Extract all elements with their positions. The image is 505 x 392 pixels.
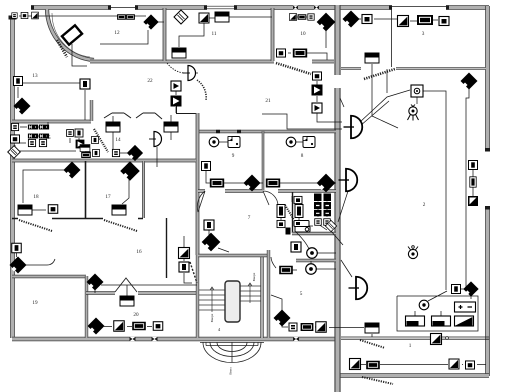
device B51 room7 <box>204 220 214 230</box>
wire room12 door leaf drop <box>72 44 87 66</box>
wall y190 rooms9-8 bottom <box>198 189 336 192</box>
device B46 room14 <box>106 122 120 132</box>
detector D1 diamond <box>143 14 158 29</box>
wire room15 net <box>15 122 91 152</box>
wall left outer <box>9 16 17 339</box>
detector D7 <box>463 281 478 296</box>
bell R1 room2 <box>419 300 429 310</box>
device B14 right column <box>468 196 478 206</box>
wall x85 room18-17 divider <box>85 161 87 218</box>
wall y68 right <box>341 67 486 70</box>
device A9 <box>308 14 314 20</box>
wire room18 <box>23 170 65 210</box>
wall y115 room14 top <box>104 113 162 119</box>
door leaf room10 bottom <box>276 63 311 74</box>
device B31 corridor east <box>179 262 189 272</box>
device B25 room20 <box>114 321 125 332</box>
wire room20 row <box>95 285 197 327</box>
device B57 room6 <box>324 219 331 226</box>
device B48 room9 <box>202 162 211 171</box>
device B47 room14 <box>164 122 178 132</box>
svg-text:12: 12 <box>114 30 120 36</box>
wire room16 west <box>17 253 56 265</box>
device A1 top-left <box>12 13 17 18</box>
door leaf room18 <box>19 220 52 231</box>
device A10 <box>362 15 372 24</box>
door leaf room17 <box>104 220 137 231</box>
wall x197 mid vertical <box>196 113 200 255</box>
detector D14 room17 <box>120 161 140 181</box>
device A4 pair <box>117 14 126 20</box>
device B40 room15 <box>75 129 83 137</box>
wire cluster room6 <box>281 196 343 249</box>
device B54 room6 <box>295 205 303 218</box>
device A5 <box>199 13 209 23</box>
svg-text:14: 14 <box>115 137 121 143</box>
device B41 room15 <box>76 140 85 149</box>
detector D12 wall14 <box>127 145 143 161</box>
door room16 south <box>115 278 137 292</box>
svg-text:22: 22 <box>147 78 153 84</box>
sprinkler SP1 room2 <box>408 246 418 259</box>
wall x91 stub <box>90 100 93 121</box>
device B60 room16 west <box>12 243 22 253</box>
detector D17 room8 <box>317 174 336 193</box>
speaker S2 room14 <box>149 132 162 147</box>
wire camera net <box>360 64 469 290</box>
device B4 <box>171 81 181 91</box>
device B28 <box>120 296 134 306</box>
bell R5 room5 <box>306 264 317 275</box>
device B29 wall14 <box>112 149 119 156</box>
wire room14 <box>113 115 171 167</box>
device B56 room6 <box>315 219 322 226</box>
device B22 <box>301 323 314 331</box>
stair core <box>225 281 240 322</box>
device B11 hall <box>365 53 379 63</box>
svg-text:10: 10 <box>300 31 306 37</box>
wall y337 room1 top <box>341 337 489 340</box>
svg-text:1: 1 <box>409 343 412 349</box>
wire diamond151 to wall <box>157 21 164 23</box>
device B42 room15 <box>80 145 90 152</box>
device A8 <box>298 14 307 20</box>
door leaf room1 northwest <box>360 340 385 348</box>
svg-text:17: 17 <box>105 194 111 200</box>
entrance porch arcs <box>200 342 264 362</box>
device B3 corridor22 <box>172 48 186 58</box>
door swing corridor22 semicircle <box>197 80 206 100</box>
device B36 room15 <box>28 139 35 146</box>
speaker S3 room2 wall <box>344 116 363 139</box>
device B30 corridor east <box>179 248 190 259</box>
device B1 room13 <box>14 77 23 86</box>
battery BT1 <box>406 316 425 326</box>
DOORS <box>19 13 395 384</box>
device B58 room5 <box>291 242 301 252</box>
door leaf room2 top <box>364 69 395 79</box>
detector D10 <box>87 274 104 291</box>
wire top row left <box>19 15 146 17</box>
wall x262 stair right <box>260 255 263 338</box>
device pair P1 room15 <box>28 125 38 130</box>
device B2 corridor22 <box>80 79 90 89</box>
wall y113 stub <box>176 104 198 114</box>
device A3 <box>32 12 39 19</box>
svg-text:13: 13 <box>32 73 38 79</box>
door leaf room12 rotated <box>62 25 82 44</box>
wire room3 row <box>357 19 438 21</box>
wire bottom-right row <box>361 364 486 366</box>
camera C1 room2 <box>411 85 423 97</box>
device B53 room6 <box>277 205 285 218</box>
stair treads left flight <box>199 287 225 312</box>
device A7 <box>290 14 297 21</box>
wall y131 room9-8 top <box>198 130 336 133</box>
detector D3 diamond <box>317 13 336 32</box>
device B39 room15 <box>67 130 74 137</box>
wall y218 partitions <box>12 218 143 220</box>
camera C2 tripod room2 <box>408 105 419 121</box>
stair treads right flight <box>240 283 261 303</box>
device B20 room1 <box>466 361 475 369</box>
detector R3 room8 <box>286 137 296 147</box>
svg-text:8: 8 <box>301 153 304 159</box>
wall top outer <box>31 6 489 9</box>
svg-text:11: 11 <box>212 31 217 37</box>
device B44 room15 <box>92 137 99 144</box>
svg-text:9: 9 <box>232 153 235 159</box>
wire room10 chain <box>288 17 327 60</box>
device B17 room1 <box>350 359 361 370</box>
svg-text:20: 20 <box>133 312 139 318</box>
detector D15 room15 <box>8 146 21 159</box>
device A6 <box>215 12 229 22</box>
detector R2 room9 <box>209 137 219 147</box>
wall y121 room13 bottom <box>12 120 91 124</box>
detector D4 diamond <box>343 11 360 28</box>
wire y327 row <box>271 295 372 337</box>
wall opening markers bottom <box>130 337 300 341</box>
door hatch below bottom-right wall <box>362 377 393 384</box>
device B15 <box>452 285 461 294</box>
svg-text:15: 15 <box>45 135 51 141</box>
wall opening markers top mid <box>293 6 319 10</box>
device B55 room6 <box>277 220 285 227</box>
device B49 room9 <box>210 179 224 188</box>
detector D16 room9 <box>244 175 261 192</box>
wall x166 room16 right <box>166 218 168 278</box>
wall x143 room17 right <box>142 161 145 218</box>
wall x263 divider rooms9-8 <box>262 131 265 190</box>
wall bottom-right outer <box>336 373 489 378</box>
door leaf arc wall top-left <box>52 13 90 57</box>
wire room17 <box>122 178 129 204</box>
svg-text:19: 19 <box>32 300 38 306</box>
socket T1 room9 <box>228 137 240 148</box>
detector D6 room2 <box>461 73 478 90</box>
device B45 room15 <box>93 150 100 157</box>
svg-text:Вверх: Вверх <box>210 313 214 322</box>
wire room12 drop <box>100 30 148 44</box>
device pair P3 room15 <box>28 134 38 139</box>
device pair P4 room15 <box>39 134 49 139</box>
wire room9 <box>206 142 263 183</box>
device B5 <box>171 96 182 107</box>
device B26 room20 <box>132 322 146 331</box>
wire room22 column <box>176 73 198 113</box>
door leaf room15 east <box>94 129 108 152</box>
svg-text:5: 5 <box>300 291 303 297</box>
wall right outer <box>485 6 490 376</box>
speaker S1 corridor22 <box>183 66 196 81</box>
wire room8 <box>280 142 336 183</box>
power supply plusminus <box>455 302 476 312</box>
device B50 room8 <box>266 179 280 188</box>
wall x164 room11 left <box>163 8 167 61</box>
device B6 room10 <box>277 49 286 57</box>
device A12 <box>417 15 433 25</box>
device B27 room20 <box>153 322 163 331</box>
wire room7 <box>209 230 229 252</box>
wall x292 room6 left <box>292 192 294 233</box>
wire room5 <box>271 253 336 270</box>
device B7 room10 <box>293 49 307 58</box>
battery BT3 <box>455 316 474 326</box>
door arc room7 <box>197 191 205 212</box>
svg-text:7: 7 <box>248 215 251 221</box>
device A11 <box>398 16 409 27</box>
device B32 room18 <box>18 205 32 215</box>
detector D9 room20 <box>88 318 105 335</box>
wall x198 stair left <box>196 255 199 338</box>
wall y233 room6 bottom <box>292 232 336 235</box>
battery BT2 <box>432 316 451 326</box>
wire room21 column <box>262 81 342 129</box>
device A2 <box>21 12 28 18</box>
device pair P2 room15 <box>39 125 49 130</box>
door arc room8 lower <box>263 191 278 206</box>
terminal grid room6 <box>314 194 331 217</box>
wall y255 room7 bottom <box>198 254 270 257</box>
svg-text:Вниз: Вниз <box>229 367 233 375</box>
wall x272 room10 left <box>271 8 275 61</box>
wall x86 room19 right <box>85 276 88 338</box>
device B38 room15 <box>11 135 20 143</box>
svg-text:2: 2 <box>423 202 426 208</box>
door hatch room5 <box>285 205 294 220</box>
svg-text:18: 18 <box>33 194 39 200</box>
socket T2 room8 <box>303 137 315 148</box>
detector D8 hall south <box>274 310 291 327</box>
door corridor to stairs dashed <box>190 262 197 283</box>
speaker S5 room2 wall <box>349 277 368 300</box>
bell R4 room5 <box>307 248 318 259</box>
wall x337 main vertical <box>334 5 340 392</box>
wall x391 room3 left <box>391 9 393 67</box>
wire room11 chain <box>179 17 272 47</box>
detector D2 hatch diamond <box>174 10 188 24</box>
device B16 on wall y337 <box>431 334 442 345</box>
device B33 room18 <box>48 205 58 214</box>
device B37 room15 <box>39 139 46 146</box>
detector D19 room6 <box>325 220 336 231</box>
door leaf corridor22 to room11 <box>167 63 184 73</box>
wire room13 <box>18 83 85 120</box>
svg-text:Вверх: Вверх <box>252 272 256 281</box>
device B9 room21 <box>312 85 323 96</box>
wall x268 <box>267 250 270 338</box>
wire speakers room2 <box>338 98 352 277</box>
wire right column <box>451 170 473 299</box>
wall y160 <box>12 159 196 163</box>
device B13 right column <box>470 177 476 187</box>
detector D18 room7 <box>202 233 221 252</box>
detector D13 room18 <box>64 162 81 179</box>
detector D20 room16 west <box>10 257 27 274</box>
wall y276 room19 top <box>12 275 86 278</box>
device B59 room5 <box>279 266 293 275</box>
device B8 room21 <box>313 72 322 80</box>
wall opening ticks top <box>31 5 449 9</box>
device B10 room21 <box>312 103 322 113</box>
device B24 <box>365 323 379 333</box>
svg-text:21: 21 <box>265 98 271 104</box>
control panel room6 <box>286 221 311 235</box>
device B43 room15 <box>81 152 91 158</box>
wire battery box <box>397 291 478 331</box>
device A13 <box>439 17 449 26</box>
wire corridor east <box>184 236 192 283</box>
device B18 room1 <box>366 361 380 370</box>
device B52 room6 <box>294 196 302 203</box>
device B12 right column <box>469 161 478 170</box>
wall y292 room20 top <box>86 291 198 294</box>
wall y60 corridor top <box>90 60 334 64</box>
speaker S4 room2 wall <box>339 169 358 192</box>
detector D5 room13 <box>14 98 31 115</box>
device B34 room17 <box>112 205 126 215</box>
svg-text:3: 3 <box>422 31 425 37</box>
device B19 room1 <box>449 359 459 369</box>
device B23 <box>316 322 327 333</box>
wall y260 room5 <box>296 259 336 262</box>
device B35 room15 <box>11 123 18 130</box>
svg-text:16: 16 <box>136 249 142 255</box>
wall curved top-left <box>47 9 94 60</box>
wall bottom-left outer <box>12 337 338 342</box>
device B21 <box>289 323 297 331</box>
